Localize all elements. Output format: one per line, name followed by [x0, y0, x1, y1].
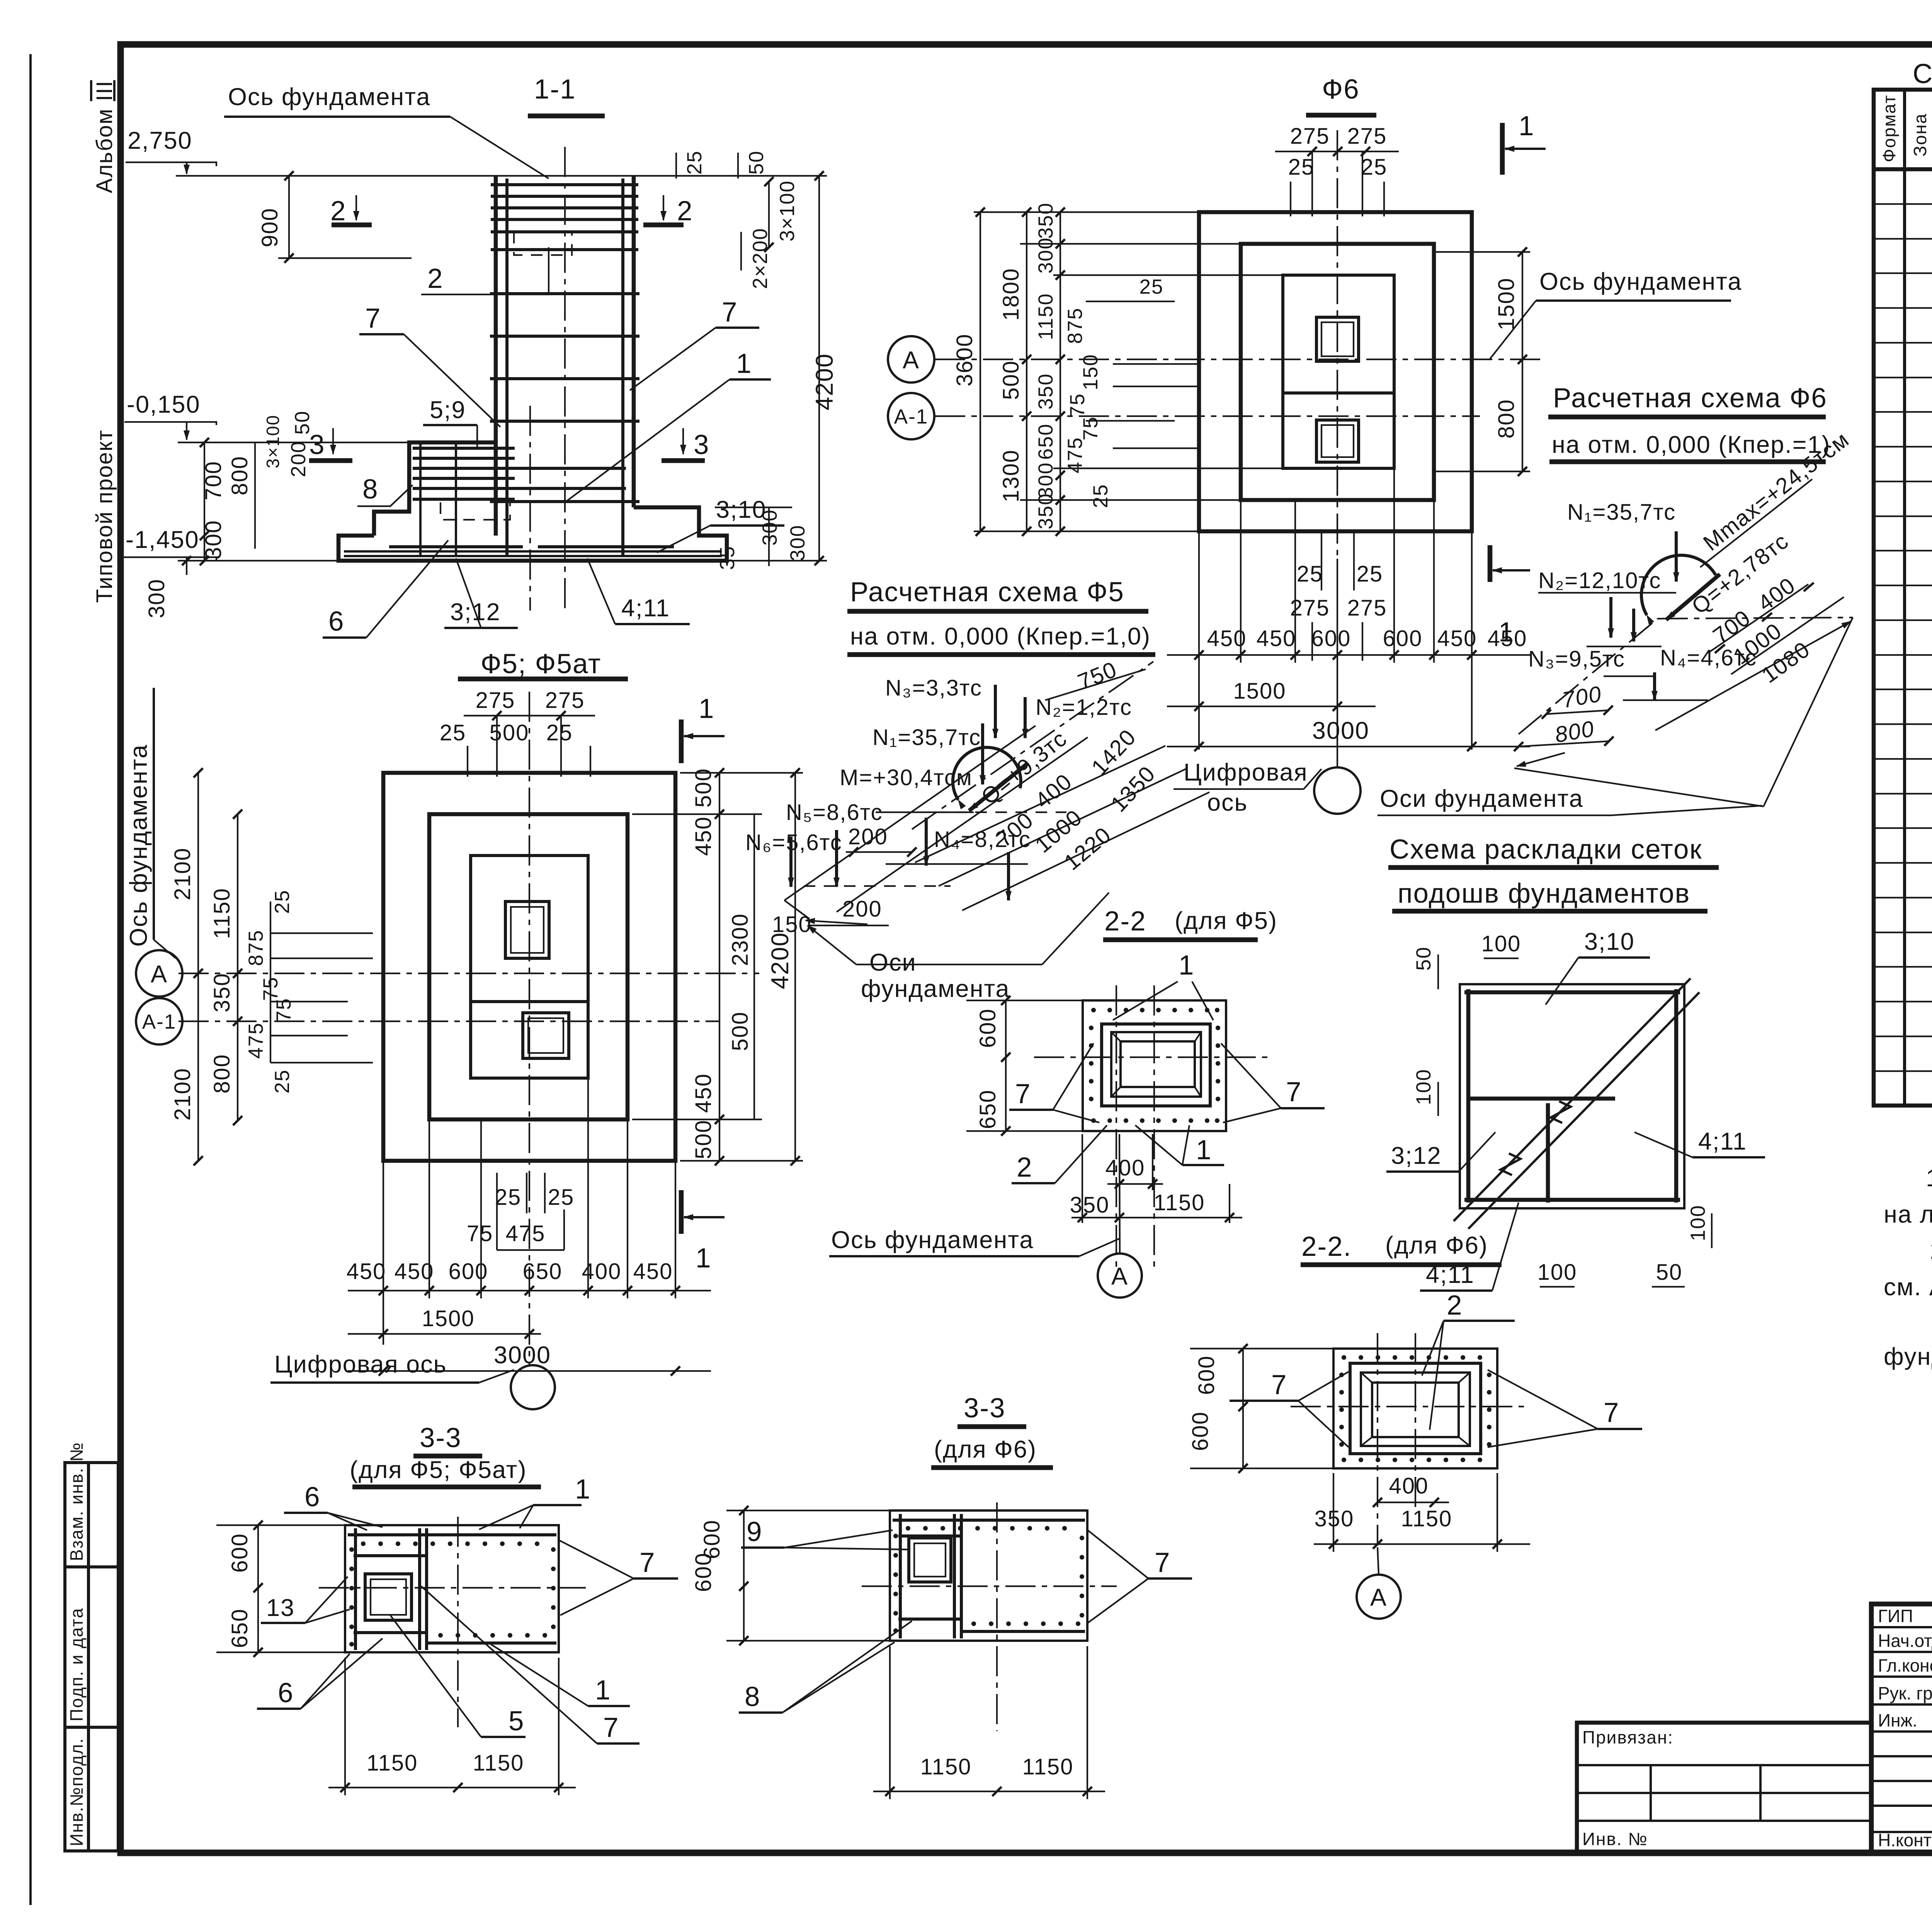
table frame	[1874, 90, 1932, 1106]
svg-text:см. АР, лист 2.: см. АР, лист 2.	[1884, 1274, 1932, 1301]
svg-text:3000: 3000	[1312, 717, 1369, 744]
svg-text:7: 7	[1271, 1370, 1287, 1400]
svg-text:1150: 1150	[1022, 1754, 1074, 1779]
extension lines left F6	[974, 211, 1199, 213]
svg-text:Ось фундамента: Ось фундамента	[831, 1226, 1034, 1254]
axis circle A	[136, 950, 182, 997]
anchor box lower F6	[1316, 420, 1359, 462]
svg-text:3;10: 3;10	[1584, 928, 1635, 955]
svg-text:100: 100	[1537, 1260, 1577, 1285]
svg-text:Н.контр.: Н.контр.	[1878, 1830, 1932, 1850]
svg-text:350: 350	[209, 973, 235, 1012]
svg-text:2×200: 2×200	[749, 228, 772, 289]
left dims 2-2 F6	[1242, 1349, 1244, 1468]
svg-text:500: 500	[691, 768, 716, 808]
svg-text:1: 1	[1519, 111, 1535, 141]
svg-text:200: 200	[842, 896, 882, 922]
svg-text:Зона: Зона	[1910, 113, 1930, 156]
svg-text:650: 650	[227, 1608, 252, 1648]
svg-text:N₃=3,3тс: N₃=3,3тс	[885, 675, 982, 701]
svg-text:7: 7	[365, 303, 381, 334]
svg-text:N₂=12,10тс: N₂=12,10тс	[1538, 568, 1661, 593]
svg-text:800: 800	[1494, 399, 1519, 439]
left dim chains F6	[980, 212, 981, 531]
svg-text:N₅=8,6тс: N₅=8,6тс	[786, 800, 883, 825]
outer rect F6	[1199, 212, 1472, 531]
svg-text:1500: 1500	[1233, 679, 1286, 704]
svg-text:3×100: 3×100	[776, 180, 799, 242]
svg-text:Ось фундамента: Ось фундамента	[228, 83, 430, 111]
svg-text:475: 475	[506, 1221, 546, 1246]
svg-text:N₃=9,5тс: N₃=9,5тс	[1528, 646, 1625, 672]
svg-text:1150: 1150	[473, 1750, 524, 1776]
interior verticals 3-3 F5	[354, 1528, 357, 1650]
corner arrow F5 scheme	[806, 920, 867, 924]
svg-text:25: 25	[495, 1185, 522, 1210]
svg-text:7: 7	[1155, 1548, 1171, 1578]
sparse mesh lines in column	[490, 292, 639, 295]
inner rect F6	[1283, 275, 1394, 468]
svg-text:300: 300	[759, 509, 781, 546]
axis A line	[179, 973, 759, 974]
svg-text:800: 800	[227, 456, 252, 495]
svg-text:Ф6: Ф6	[1322, 74, 1359, 105]
table verticals	[1903, 90, 1906, 1106]
svg-text:500: 500	[691, 1119, 716, 1159]
pedestal dense mesh	[413, 447, 515, 450]
pedestal outline	[374, 442, 496, 536]
divider F6	[1283, 391, 1394, 395]
column outline	[494, 176, 498, 536]
svg-text:2-2: 2-2	[1104, 906, 1146, 937]
diagonal with N breaks	[1454, 978, 1690, 1221]
svg-text:1: 1	[736, 349, 752, 379]
svg-text:7: 7	[1286, 1077, 1302, 1107]
svg-text:500: 500	[490, 720, 529, 745]
svg-text:фундамента: фундамента	[861, 975, 1010, 1002]
svg-text:Ось фундамента: Ось фундамента	[125, 744, 152, 947]
rebar dots 2-2 F6	[1339, 1355, 1492, 1462]
axis circle A F6	[888, 336, 934, 383]
rebar dots 2-2 F5	[1089, 1008, 1220, 1123]
svg-text:75: 75	[1079, 416, 1102, 441]
svg-text:1300: 1300	[998, 449, 1024, 502]
svg-text:А: А	[1370, 1584, 1387, 1611]
svg-text:400: 400	[1389, 1473, 1429, 1499]
axis A-1 line	[179, 1021, 719, 1022]
svg-text:3600: 3600	[952, 333, 977, 386]
svg-text:Инв.№подл.: Инв.№подл.	[66, 1738, 87, 1846]
svg-text:650: 650	[975, 1089, 1000, 1129]
outer rect	[383, 773, 675, 1161]
svg-text:875: 875	[245, 930, 267, 966]
svg-text:700: 700	[1560, 681, 1604, 713]
axis lines F6 scheme	[1519, 619, 1658, 734]
svg-text:300: 300	[201, 520, 226, 560]
svg-text:650: 650	[523, 1259, 563, 1284]
svg-text:2: 2	[427, 264, 444, 294]
svg-text:1150: 1150	[1034, 293, 1057, 340]
svg-text:Взам. инв. №: Взам. инв. №	[66, 1442, 87, 1561]
svg-text:Гл.констр: Гл.констр	[1878, 1655, 1932, 1675]
axis diagonal dashdot F5	[912, 662, 1153, 829]
svg-text:1150: 1150	[209, 888, 235, 939]
svg-text:1150: 1150	[1154, 1190, 1205, 1215]
svg-text:3-3: 3-3	[964, 1393, 1006, 1424]
svg-text:6: 6	[278, 1678, 294, 1708]
svg-text:25: 25	[1139, 276, 1164, 298]
svg-text:А: А	[1111, 1263, 1128, 1290]
svg-text:А-1: А-1	[142, 1010, 176, 1033]
svg-text:350: 350	[1034, 373, 1057, 410]
svg-text:подошв фундаментов: подошв фундаментов	[1398, 878, 1690, 909]
left dims 3-3 F6	[743, 1510, 745, 1641]
svg-text:1: 1	[595, 1675, 611, 1706]
column rebar verticals	[505, 179, 509, 556]
svg-text:1: 1	[699, 694, 715, 724]
left dim chain of pedestal	[204, 442, 205, 561]
svg-text:Рук. гр.: Рук. гр.	[1878, 1683, 1932, 1703]
svg-text:3: 3	[309, 430, 325, 460]
svg-text:25: 25	[440, 720, 466, 745]
force Q F6	[1666, 574, 1720, 620]
svg-text:600: 600	[1383, 626, 1423, 651]
dashed anchor box in column	[514, 232, 572, 255]
svg-text:450: 450	[633, 1259, 673, 1284]
svg-text:Альбом III: Альбом III	[92, 80, 117, 193]
mesh rect 2-2 F5	[1102, 1024, 1210, 1106]
right dim chains	[719, 773, 720, 1161]
column centerline	[564, 147, 566, 611]
svg-text:1500: 1500	[422, 1306, 474, 1331]
svg-text:1-1: 1-1	[534, 74, 576, 105]
left dims 2-2 F5	[1005, 1000, 1007, 1131]
svg-text:Инж.: Инж.	[1878, 1710, 1917, 1730]
svg-text:500: 500	[728, 1011, 753, 1051]
svg-text:900: 900	[257, 208, 282, 247]
svg-text:Нач.отд.: Нач.отд.	[1878, 1631, 1932, 1651]
svg-text:800: 800	[209, 1054, 235, 1094]
svg-text:875: 875	[1064, 308, 1087, 344]
svg-text:7: 7	[722, 297, 738, 328]
axis circle A-1 F6	[888, 393, 934, 439]
mesh square	[1460, 984, 1684, 1208]
svg-text:(для Ф6): (для Ф6)	[934, 1436, 1037, 1463]
mesh lines 3-3 F6	[893, 1519, 1085, 1522]
svg-text:4;11: 4;11	[1698, 1128, 1747, 1155]
svg-text:Схема раскладки сеток: Схема раскладки сеток	[1389, 834, 1702, 865]
svg-text:600: 600	[691, 1552, 716, 1592]
anchor box upper	[505, 902, 549, 958]
svg-text:3-3: 3-3	[420, 1423, 462, 1453]
svg-text:450: 450	[691, 816, 716, 856]
svg-text:7: 7	[603, 1713, 619, 1743]
svg-text:N₆=5,6тс: N₆=5,6тс	[745, 830, 842, 855]
svg-text:1150: 1150	[367, 1750, 418, 1776]
svg-text:25: 25	[1288, 155, 1315, 180]
svg-text:Инв. №: Инв. №	[1582, 1829, 1648, 1849]
svg-text:Привязан:: Привязан:	[1582, 1727, 1673, 1747]
svg-text:25: 25	[683, 150, 706, 175]
svg-text:300: 300	[144, 578, 169, 618]
outer rect 2-2 F6	[1333, 1349, 1497, 1468]
slab edges F6	[1514, 768, 1764, 806]
inner rect	[471, 856, 588, 1078]
svg-text:25: 25	[1361, 155, 1388, 180]
svg-text:275: 275	[1347, 595, 1387, 621]
svg-text:Расчетная схема Ф5: Расчетная схема Ф5	[850, 577, 1124, 607]
svg-text:на отм. 0,000 (Кпер.=1): на отм. 0,000 (Кпер.=1)	[1552, 431, 1831, 458]
anchor box upper F6	[1316, 317, 1359, 361]
svg-text:300: 300	[786, 525, 809, 561]
outer rect 2-2 F5	[1083, 1000, 1226, 1131]
slab horizontals F6	[1587, 646, 1662, 647]
svg-text:650: 650	[1034, 424, 1057, 460]
row lines	[1874, 204, 1932, 1071]
rebar dots 3-3 F6	[893, 1526, 1084, 1633]
svg-text:6: 6	[328, 606, 345, 637]
outer rect 3-3 F6	[890, 1510, 1087, 1641]
svg-text:13: 13	[266, 1594, 295, 1621]
svg-text:100: 100	[1412, 1069, 1435, 1105]
anchor 3-3 F6	[909, 1538, 951, 1582]
svg-text:1500: 1500	[1494, 277, 1519, 330]
svg-text:350: 350	[1070, 1192, 1110, 1218]
svg-text:Типовой проект: Типовой проект	[92, 429, 117, 603]
title block left rows	[1871, 1627, 1932, 1832]
circle digital axis F6	[1314, 767, 1361, 814]
centerlines 2-2 F6	[1377, 1333, 1378, 1546]
svg-text:3×100: 3×100	[263, 415, 283, 468]
svg-text:-1,450: -1,450	[126, 526, 199, 553]
svg-text:фундаментов дана на листе 13.: фундаментов дана на листе 13.	[1884, 1343, 1932, 1370]
svg-text:ГИП: ГИП	[1878, 1606, 1913, 1626]
slab diagonals F5	[784, 726, 1036, 900]
svg-text:275: 275	[1347, 124, 1387, 149]
svg-text:А: А	[903, 347, 920, 374]
svg-text:Ось фундамента: Ось фундамента	[1539, 268, 1742, 295]
svg-text:Расчетная схема Ф6: Расчетная схема Ф6	[1553, 383, 1827, 413]
svg-text:ось: ось	[1207, 789, 1248, 816]
svg-text:275: 275	[476, 688, 515, 713]
svg-text:(для Ф5): (для Ф5)	[1175, 907, 1277, 934]
svg-text:25: 25	[546, 720, 573, 745]
section flag 1 top	[679, 720, 684, 763]
center vertical F6	[1337, 130, 1338, 559]
svg-text:100: 100	[1481, 931, 1521, 956]
center line vertical	[529, 692, 530, 1365]
section flag 1 bottom F6	[1488, 545, 1493, 582]
title underline	[458, 677, 628, 682]
svg-text:5;9: 5;9	[430, 396, 466, 424]
svg-text:400: 400	[1753, 573, 1800, 616]
svg-text:275: 275	[545, 688, 585, 713]
svg-text:4;11: 4;11	[621, 595, 670, 622]
axis A-1 line F6	[935, 415, 1480, 417]
axis circle A bottom F5	[1098, 1254, 1142, 1298]
svg-text:Формат: Формат	[1879, 95, 1899, 162]
svg-text:N₁=35,7тс: N₁=35,7тс	[1567, 500, 1676, 525]
centerlines 3-3 F6	[862, 1585, 1117, 1587]
rebar dots 3-3 F5	[349, 1541, 556, 1647]
axis circle A 2-2 F6	[1357, 1575, 1401, 1619]
svg-text:475: 475	[245, 1022, 267, 1059]
svg-text:1: 1	[1196, 1135, 1212, 1165]
svg-text:450: 450	[395, 1259, 434, 1284]
dim 900	[288, 176, 290, 258]
svg-text:7: 7	[639, 1548, 656, 1578]
axis circle A-1	[136, 998, 182, 1044]
left dim chains	[197, 773, 199, 1161]
svg-text:600: 600	[1188, 1411, 1213, 1451]
svg-text:25: 25	[1089, 484, 1112, 508]
svg-text:300: 300	[1034, 237, 1057, 274]
svg-text:6: 6	[304, 1482, 321, 1512]
slab horizontals F5	[886, 863, 1028, 865]
svg-text:(для Ф5; Ф5ат): (для Ф5; Ф5ат)	[350, 1456, 527, 1483]
anchor box lower	[523, 1013, 569, 1058]
svg-text:Подп. и дата: Подп. и дата	[66, 1607, 87, 1721]
svg-text:4200: 4200	[811, 353, 838, 410]
section flag 1 top	[1500, 123, 1505, 175]
svg-text:200: 200	[287, 441, 310, 477]
svg-text:1: 1	[696, 1243, 712, 1274]
svg-text:50: 50	[1656, 1260, 1683, 1285]
svg-text:Оси: Оси	[869, 949, 917, 976]
svg-text:8: 8	[745, 1682, 761, 1712]
svg-text:Цифровая: Цифровая	[1184, 759, 1308, 786]
svg-text:3000: 3000	[494, 1342, 551, 1369]
footing mesh lines	[389, 545, 523, 548]
svg-text:50: 50	[1412, 946, 1435, 971]
dashed box pedestal	[440, 502, 510, 520]
sheet edge line left	[29, 54, 32, 1905]
svg-text:75: 75	[467, 1221, 493, 1246]
svg-text:600: 600	[1194, 1355, 1219, 1395]
pedestal rebar verticals	[419, 444, 422, 556]
section flag 1 bottom	[679, 1190, 684, 1234]
svg-text:200: 200	[848, 824, 888, 849]
svg-text:7: 7	[1015, 1079, 1031, 1109]
bevel frame 2-2 F6	[1361, 1373, 1470, 1446]
svg-text:3;12: 3;12	[1391, 1142, 1442, 1169]
svg-text:N₁=35,7тс: N₁=35,7тс	[872, 725, 981, 750]
svg-text:2100: 2100	[170, 1068, 195, 1121]
svg-text:А: А	[151, 961, 168, 988]
top mesh line 3-3 F5	[348, 1533, 556, 1536]
dim diagonals F6	[1708, 584, 1808, 653]
interior verticals 3-3 F6	[899, 1514, 902, 1638]
svg-text:35: 35	[716, 546, 739, 570]
svg-text:2100: 2100	[170, 847, 195, 900]
footing outline	[338, 507, 727, 561]
svg-text:25: 25	[271, 890, 294, 914]
bevel frame 2-2 F5	[1111, 1032, 1201, 1097]
svg-text:25: 25	[271, 1069, 294, 1094]
svg-text:600: 600	[1311, 626, 1351, 651]
svg-text:100: 100	[1687, 1205, 1709, 1241]
svg-text:150: 150	[772, 912, 812, 937]
svg-text:1150: 1150	[920, 1754, 972, 1779]
svg-text:450: 450	[691, 1073, 716, 1113]
svg-text:Спецификация фундаментов Ф5,: Спецификация фундаментов Ф5, Ф5ат, Ф6	[1913, 59, 1932, 89]
svg-text:5: 5	[509, 1706, 525, 1737]
svg-text:75: 75	[1066, 393, 1089, 417]
anchor 3-3 F5	[365, 1574, 412, 1620]
force Q F5	[969, 763, 1028, 811]
title block frame	[1871, 1604, 1932, 1852]
svg-text:700: 700	[201, 461, 226, 500]
svg-text:3: 3	[694, 430, 710, 460]
axis A line F6	[935, 359, 1546, 360]
svg-text:1800: 1800	[998, 268, 1024, 321]
svg-text:275: 275	[1290, 124, 1330, 149]
svg-text:Цифровая ось: Цифровая ось	[274, 1351, 447, 1378]
svg-text:2: 2	[1447, 1290, 1463, 1321]
svg-text:на листе 12.: на листе 12.	[1884, 1201, 1932, 1228]
left strip boxes	[65, 1463, 118, 1851]
svg-text:2: 2	[1017, 1152, 1033, 1183]
right dim 4200	[818, 176, 820, 561]
right dims F6 1500 800	[1522, 252, 1523, 471]
circle digital axis F5	[511, 1365, 555, 1409]
outer rect 3-3 F5	[345, 1525, 559, 1652]
svg-text:450: 450	[1257, 626, 1296, 651]
centerlines 3-3 F5	[319, 1587, 586, 1589]
svg-text:7: 7	[1604, 1398, 1620, 1428]
left dims 3-3 F5	[257, 1525, 259, 1652]
svg-text:2,750: 2,750	[128, 127, 192, 154]
svg-text:600: 600	[975, 1008, 1000, 1048]
svg-text:1. Ведомость расхода стали на: 1. Ведомость расхода стали на фундаменты…	[1926, 1165, 1932, 1192]
centerlines 2-2 F5	[1116, 985, 1117, 1271]
svg-text:1: 1	[1179, 950, 1195, 981]
level line top	[176, 175, 753, 177]
mesh rect 2-2 F6	[1350, 1363, 1481, 1454]
svg-text:50: 50	[745, 150, 768, 175]
svg-text:600: 600	[227, 1533, 252, 1573]
dim diagonals right F5	[915, 746, 1165, 862]
svg-text:2300: 2300	[728, 913, 753, 966]
svg-text:9: 9	[747, 1517, 763, 1547]
middle rect	[429, 814, 628, 1119]
svg-text:25: 25	[1297, 561, 1323, 587]
svg-text:150: 150	[1079, 354, 1102, 390]
svg-text:2: 2	[330, 196, 347, 226]
dense top mesh lines	[491, 183, 638, 186]
svg-text:2. Указания по составу бетона: 2. Указания по составу бетона и его плот…	[1930, 1237, 1932, 1264]
svg-text:500: 500	[998, 360, 1024, 400]
svg-text:350: 350	[1034, 202, 1057, 239]
svg-text:450: 450	[347, 1259, 386, 1284]
divider	[471, 1000, 588, 1003]
svg-text:на отм. 0,000 (Кпер.=1,0): на отм. 0,000 (Кпер.=1,0)	[850, 623, 1151, 650]
svg-text:8: 8	[362, 474, 379, 505]
header row line	[1874, 167, 1932, 172]
svg-text:2: 2	[677, 196, 693, 226]
svg-text:600: 600	[449, 1259, 488, 1284]
middle rect F6	[1241, 244, 1434, 500]
svg-text:Ф5; Ф5ат: Ф5; Ф5ат	[481, 649, 602, 679]
svg-text:А-1: А-1	[894, 405, 928, 428]
svg-text:400: 400	[1105, 1155, 1145, 1180]
svg-text:1: 1	[1498, 617, 1515, 648]
svg-text:1150: 1150	[1401, 1506, 1452, 1531]
privyazan table	[1577, 1723, 1871, 1852]
svg-text:4200: 4200	[767, 932, 794, 989]
svg-text:-0,150: -0,150	[127, 391, 201, 418]
svg-text:1: 1	[575, 1474, 591, 1505]
